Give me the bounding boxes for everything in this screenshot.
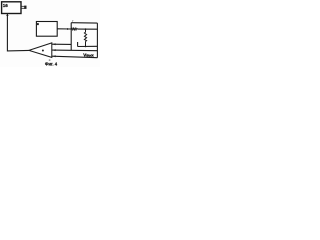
svg-text:Фиг. 4: Фиг. 4 (45, 62, 58, 67)
svg-text:16: 16 (3, 3, 9, 8)
svg-text:Vвых: Vвых (83, 52, 94, 57)
